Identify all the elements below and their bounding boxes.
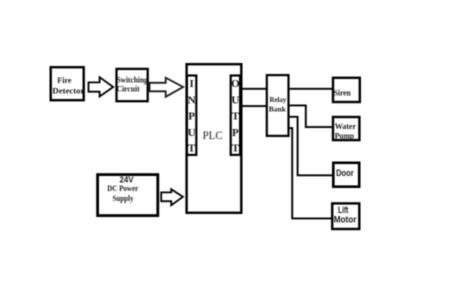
svg-text:Relay: Relay [270,95,287,104]
wire Relay Bank to Water Pump [290,105,332,127]
svg-text:PLC: PLC [203,129,223,142]
block Lift Motor [332,203,359,229]
svg-text:Pump: Pump [335,131,355,141]
wire PLC OUTPT to Relay Bank lower [241,105,266,107]
arrow Switching Circuit to PLC [150,78,184,97]
block PLC outer [187,64,242,213]
block Fire Detector [51,67,85,100]
svg-text:Door: Door [336,168,354,178]
svg-text:Detector: Detector [52,86,84,96]
wire Relay Bank to Door [290,117,333,176]
block 24V DC Power Supply [98,174,158,215]
svg-text:O: O [231,78,240,90]
svg-text:Bank: Bank [269,104,287,113]
wire PLC OUTPT to Relay Bank upper [241,88,266,90]
svg-text:Water: Water [335,121,356,131]
svg-text:DC Power: DC Power [107,183,138,193]
svg-text:T: T [188,143,196,155]
svg-text:Supply: Supply [113,193,134,203]
svg-text:Siren: Siren [334,88,351,98]
svg-text:Circuit: Circuit [117,83,140,93]
block Door [333,163,359,187]
block Siren [333,78,360,102]
wire Relay Bank to Siren [290,88,332,90]
arrow 24V DC Power Supply to PLC [161,189,183,205]
svg-text:N: N [188,94,196,106]
svg-text:U: U [188,127,196,139]
svg-text:I: I [189,78,193,90]
svg-text:P: P [188,111,195,123]
block Relay Bank [267,75,289,136]
svg-text:Motor: Motor [334,214,357,225]
svg-text:Fire: Fire [57,75,71,85]
svg-text:P: P [232,127,239,139]
svg-text:T: T [232,111,240,123]
wire Relay Bank to Lift Motor [290,128,331,218]
block OUTPT column [231,76,240,155]
block Water Pump [333,117,359,141]
block Switching Circuit [117,69,149,101]
block INPUT column [187,76,196,155]
arrow Fire Detector to Switching Circuit [89,77,114,96]
svg-text:T: T [232,143,240,155]
svg-text:U: U [231,94,239,106]
